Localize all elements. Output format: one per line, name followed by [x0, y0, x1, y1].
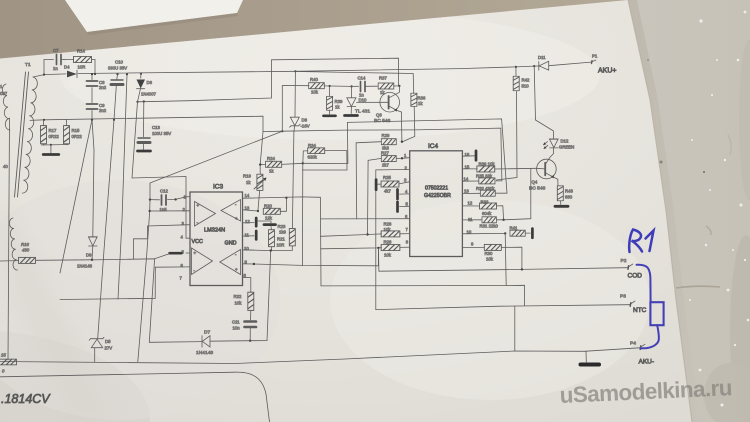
IC4 box [410, 143, 463, 257]
svg-text:R36 10k: R36 10k [479, 162, 496, 167]
svg-text:0R22: 0R22 [72, 134, 83, 139]
svg-text:COD: COD [628, 273, 643, 280]
svg-text:100U 35V: 100U 35V [152, 131, 171, 136]
svg-text:R33: R33 [481, 200, 489, 205]
ground bar under C13 [138, 150, 151, 153]
svg-text:R35 33k: R35 33k [476, 174, 493, 179]
desk white speckles [689, 11, 749, 407]
svg-text:11: 11 [245, 233, 250, 238]
svg-text:620k: 620k [308, 155, 318, 160]
shadow under schematic paper top edge [0, 1, 629, 66]
wire: R21 node down to D7 loop [267, 251, 271, 341]
svg-text:1n: 1n [359, 93, 364, 98]
svg-text:R15: R15 [72, 128, 80, 133]
terminal P1 [591, 60, 596, 62]
svg-text:D12: D12 [561, 139, 569, 144]
diode D4 [64, 65, 77, 78]
svg-text:P1: P1 [592, 54, 598, 59]
resistor R36b (10k) [462, 162, 495, 173]
svg-text:TL 431: TL 431 [355, 109, 370, 115]
wire: R24 node down to pin9 line [301, 163, 303, 265]
wire: ground bottom wire [0, 351, 586, 364]
resistor R28 [321, 240, 410, 258]
svg-text:AKU+: AKU+ [598, 68, 616, 75]
wire: IC4 pin2 to NTC line [376, 169, 410, 309]
svg-text:R37: R37 [379, 76, 387, 81]
svg-text:P4: P4 [630, 341, 636, 347]
resistor R26 [366, 222, 409, 237]
svg-text:10k: 10k [235, 301, 243, 306]
zener D5 [89, 337, 112, 362]
resistor R19 with arrow [243, 165, 267, 211]
svg-text:G4225OBR: G4225OBR [424, 193, 451, 199]
bar terminal at IC4 pin4 [398, 190, 410, 200]
svg-text:10k: 10k [384, 227, 392, 232]
svg-text:IC4: IC4 [428, 143, 439, 150]
svg-text:10R: 10R [78, 65, 86, 70]
svg-text:R19: R19 [243, 174, 251, 179]
svg-text:1N4148: 1N4148 [77, 264, 93, 269]
wire: pin14 line to bus riser [243, 197, 321, 286]
wire: D9 node right then down to D7 [92, 259, 155, 343]
svg-text:R21: R21 [277, 237, 285, 242]
svg-text:4k7: 4k7 [384, 189, 392, 194]
transistor Q4 BC546 [529, 148, 558, 192]
wire: R20 right riser to pin14 line [281, 198, 287, 212]
svg-text:GREEN: GREEN [559, 145, 574, 150]
svg-text:P3: P3 [620, 294, 626, 300]
svg-text:D10: D10 [359, 98, 367, 103]
svg-text:510: 510 [522, 84, 530, 89]
wire: snubber branch [44, 60, 54, 75]
wire: R29 left to pin6 bus [356, 142, 381, 219]
desk scratch marks [676, 286, 720, 288]
handwritten blue R1 [629, 230, 653, 253]
svg-text:D11: D11 [538, 55, 546, 60]
resistor R43 [557, 186, 573, 205]
svg-text:D8: D8 [302, 118, 308, 123]
wire: C10 bottom to D5 area [98, 120, 114, 339]
wire: IC3 pin6/7 to lower left [60, 267, 190, 300]
terminal P4 [586, 341, 654, 366]
svg-text:1N4148: 1N4148 [196, 350, 213, 356]
svg-text:R30: R30 [485, 251, 493, 256]
svg-text:R22: R22 [234, 294, 242, 299]
desk darker streaks near right edge [704, 40, 750, 422]
resistor R25 with bar [376, 175, 410, 194]
svg-text:VCC: VCC [192, 239, 203, 245]
resistor R31 [462, 168, 530, 228]
resistor at left edge (partial) [0, 353, 17, 374]
node dot rail/snubber right [94, 73, 96, 75]
wire: C8/C9 branch [91, 74, 93, 80]
svg-text:BC 546: BC 546 [529, 186, 546, 192]
transformer T1 [2, 62, 44, 270]
svg-text:1N4007: 1N4007 [141, 92, 157, 97]
svg-text:13: 13 [464, 189, 469, 194]
svg-text:Q4: Q4 [532, 180, 538, 185]
wire: bus line2 [321, 285, 525, 305]
wire: D8 down to R23 top [292, 131, 294, 228]
capacitor C9 [87, 103, 107, 113]
wire: C12 node diagonal to D8 ground node [150, 131, 282, 199]
svg-text:R23: R23 [278, 224, 286, 229]
svg-text:0R22: 0R22 [49, 134, 60, 139]
diode D11 [533, 55, 549, 70]
wire: R40 node riser [282, 86, 309, 132]
paper edge line [628, 0, 692, 422]
wire: top +V rail [44, 73, 66, 76]
svg-text:R29: R29 [382, 133, 390, 138]
svg-text:R42: R42 [522, 78, 530, 83]
resistor R16 [0, 242, 91, 263]
svg-text:2n2: 2n2 [99, 108, 107, 113]
svg-text:R17: R17 [49, 128, 57, 133]
svg-text:12: 12 [245, 219, 250, 224]
resistor R14 [73, 49, 91, 70]
capacitor C10 electrolytic [108, 60, 127, 120]
bar terminal at IC3 pin11 [255, 231, 258, 239]
svg-text:R41: R41 [510, 226, 518, 231]
wire: R27 left down to pin7 node [368, 158, 382, 234]
svg-text:10n: 10n [233, 326, 241, 331]
svg-text:R31 22k0: R31 22k0 [480, 224, 499, 229]
wire: bus line1 to P2 [379, 268, 627, 272]
wire: IC3 pin9 line to R28 node [243, 248, 378, 266]
capacitor C12 [149, 189, 190, 213]
svg-text:Q3: Q3 [376, 113, 382, 118]
capacitor C7 [53, 48, 64, 71]
op-amp IC3 LM324N box [190, 184, 243, 286]
resistor R37 [378, 76, 394, 96]
desk top tan strip [0, 0, 630, 62]
diode D6 [137, 73, 157, 102]
capacitor C11 [232, 310, 256, 340]
svg-text:C10: C10 [115, 60, 123, 65]
wire: IC4 pin6 to bus [321, 218, 410, 220]
svg-text:40: 40 [3, 164, 8, 169]
svg-text:2k7: 2k7 [382, 163, 390, 168]
svg-text:604k: 604k [482, 211, 492, 216]
ground bar at P4 [581, 351, 600, 364]
capacitor C14 [352, 76, 378, 98]
wire: IC3 pin3 staircase [134, 225, 191, 259]
svg-text:10k: 10k [311, 90, 319, 95]
svg-text:R24: R24 [267, 156, 275, 161]
svg-text:12k: 12k [265, 216, 273, 221]
bar terminal at IC4 pin16 [462, 151, 476, 160]
desk dark specks [405, 59, 705, 397]
wire: pin12 bar to R21 top [258, 221, 271, 223]
zener D8 [290, 70, 310, 131]
svg-text:D4: D4 [64, 65, 70, 70]
LED D12 GREEN [543, 139, 574, 150]
wire: IC3 pin10 line [243, 249, 292, 252]
diode D7 [149, 330, 250, 357]
svg-text:680: 680 [565, 195, 573, 200]
svg-text:D9: D9 [86, 253, 92, 258]
resistor R24 [266, 156, 282, 174]
svg-text:10R: 10R [277, 243, 285, 248]
svg-text:R39: R39 [335, 99, 343, 104]
terminal P3 [620, 294, 647, 315]
svg-text:1n: 1n [53, 66, 58, 71]
bar terminal at IC3 pin12 [255, 218, 258, 226]
wire: pin10 node riser down [505, 233, 506, 285]
resistor R22 [234, 292, 254, 310]
wire: IC3 pin2 [150, 210, 190, 212]
resistor R21 [269, 227, 286, 251]
resistor R42 [513, 66, 530, 91]
diode D9 [77, 120, 97, 269]
wire: R42 bottom riser to R35 [496, 91, 517, 180]
resistor R35 [462, 174, 495, 184]
capacitor above R21 (bar) [264, 223, 276, 226]
svg-text:C11: C11 [232, 320, 240, 325]
svg-text:14: 14 [245, 193, 250, 198]
svg-text:12: 12 [468, 201, 473, 206]
wire: D6 node down to VCC pin4 IC3 [132, 102, 190, 238]
svg-text:R27: R27 [381, 151, 389, 156]
svg-text:R28: R28 [384, 240, 392, 245]
wire: rail branch down (third vertical) [118, 74, 127, 299]
resistor R41 with bar [462, 226, 532, 238]
resistor R17 [41, 120, 60, 145]
svg-text:R32 430k: R32 430k [476, 186, 495, 191]
svg-text:R20: R20 [264, 204, 272, 209]
svg-text:C12: C12 [160, 189, 168, 194]
capacitor C13 electrolytic [138, 100, 171, 149]
svg-text:D7: D7 [204, 330, 211, 336]
svg-text:R40: R40 [310, 77, 318, 82]
resistor R20 [263, 204, 280, 221]
resistor R23 [278, 224, 296, 250]
wire: frame lower outline with rounded corner [0, 372, 270, 422]
svg-text:15: 15 [1, 353, 6, 358]
wire: IC3 pin8 to R22 [243, 277, 251, 292]
svg-text:2n2: 2n2 [99, 85, 107, 90]
wire: C9 line to lower left [60, 120, 92, 273]
resistor R30 [462, 244, 522, 269]
left frame vertical [8, 118, 10, 360]
resistor R33 [462, 200, 503, 220]
resistor R15 [64, 120, 83, 145]
wire: D9 node to IC3 pin5 bar [155, 254, 170, 259]
svg-text:C13: C13 [152, 125, 160, 130]
ground under R17/R15 [43, 145, 59, 155]
wire: pin7 node to bus [320, 235, 367, 237]
capacitor C8 [87, 80, 107, 90]
resistor R39 [327, 86, 343, 114]
wire: D11 node down to D12 [534, 66, 553, 139]
svg-text:1k9: 1k9 [279, 230, 287, 235]
wire: C12 node down to D7 loop [138, 200, 150, 362]
wire: R19 top riser from lower rail corner [260, 132, 263, 165]
resistor R32 [462, 186, 495, 196]
svg-text:GND: GND [225, 241, 237, 247]
resistor R29 [381, 133, 396, 151]
wire: NTC line to P3 [376, 305, 630, 310]
svg-text:NTC: NTC [633, 307, 647, 314]
svg-text:D5: D5 [105, 339, 111, 344]
ground under R39 [324, 114, 336, 117]
svg-text:.1814CV: .1814CV [1, 392, 51, 406]
svg-text:R25: R25 [383, 175, 391, 180]
ground under TL431 [345, 114, 358, 117]
wire: ground line3 [263, 128, 502, 181]
blue NTC thermistor sketch [637, 265, 664, 349]
svg-text:07502221: 07502221 [425, 186, 448, 192]
svg-text:BC 546: BC 546 [374, 118, 391, 124]
svg-text:R16: R16 [21, 242, 29, 247]
wire: h1 line from R24/R34 node to R32 riser [303, 119, 507, 193]
wire: D6 bottom to TL431 supply line [138, 58, 399, 102]
resistor R27 [381, 151, 410, 168]
resistor R34 [302, 143, 347, 170]
transistor Q3 BC546 [357, 86, 402, 142]
resistor R40 [309, 77, 325, 95]
node dot rail/snubber left [43, 74, 45, 76]
svg-text:C14: C14 [358, 76, 366, 81]
svg-text:007: 007 [0, 91, 8, 96]
svg-text:27V: 27V [105, 346, 113, 351]
wire: D7 node to R21 riser [250, 340, 267, 342]
svg-text:10k: 10k [384, 253, 392, 258]
svg-text:T1: T1 [25, 62, 31, 68]
IC3 pin stubs [243, 210, 258, 211]
wire: R36b to Q4 base [495, 167, 537, 170]
shadow on desk along right paper edge [628, 0, 700, 422]
resistor R36 (1k at Q3 emitter) [296, 72, 426, 142]
svg-text:-16V: -16V [301, 124, 310, 129]
svg-text:R26: R26 [384, 222, 392, 227]
ground under R43 [555, 205, 568, 208]
shunt regulator D10 TL431 [347, 86, 371, 114]
svg-text:R14: R14 [77, 49, 85, 54]
terminal P2 [621, 258, 643, 280]
wire: R17/R15 bottoms [42, 144, 69, 147]
svg-text:C7: C7 [53, 48, 59, 53]
white paper scrap at top [65, 0, 243, 32]
wire: R40 to C14 node [324, 85, 352, 88]
bar terminal at IC3 pin5 [170, 252, 182, 255]
svg-text:IC3: IC3 [213, 184, 224, 191]
svg-text:R43: R43 [565, 189, 573, 194]
svg-text:330U 35V: 330U 35V [108, 66, 127, 71]
svg-text:R34: R34 [308, 143, 316, 148]
svg-text:LM324N: LM324N [204, 228, 225, 234]
svg-text:R36: R36 [418, 96, 426, 101]
svg-text:10k: 10k [486, 257, 494, 262]
svg-text:P2: P2 [621, 258, 627, 264]
bar terminal at IC4 pin5 [398, 202, 410, 212]
wire: lower rail [44, 116, 263, 131]
svg-text:D6: D6 [147, 80, 153, 85]
wire: R37 to collector node [394, 85, 400, 87]
svg-text:AKU-: AKU- [639, 359, 655, 366]
svg-text:430: 430 [22, 248, 30, 253]
